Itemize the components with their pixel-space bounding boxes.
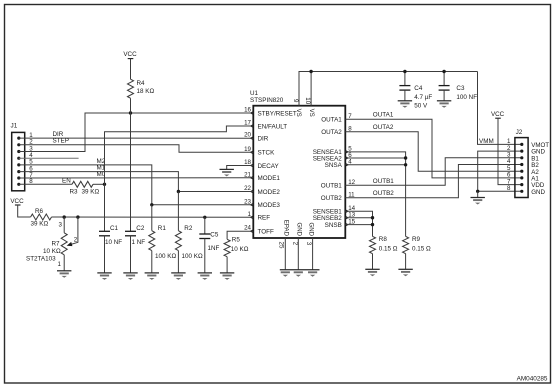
svg-text:50 V: 50 V xyxy=(414,103,428,110)
svg-text:1: 1 xyxy=(248,211,252,218)
svg-text:100 KΩ: 100 KΩ xyxy=(155,253,176,260)
svg-text:R2: R2 xyxy=(184,225,193,232)
resistor R9 xyxy=(403,236,409,253)
ground R5 xyxy=(220,272,234,274)
svg-text:VCC: VCC xyxy=(10,198,24,205)
J2 pin 7 dot xyxy=(520,183,523,186)
J2 pin 2 dot xyxy=(520,150,523,153)
svg-text:MODE1: MODE1 xyxy=(258,175,281,182)
wire OUTA2 U1.8 to J2.5 A2 xyxy=(345,132,522,172)
capacitor C4 xyxy=(404,72,406,86)
svg-text:STEP: STEP xyxy=(53,138,69,145)
node GND junction at J2.8 xyxy=(476,190,479,193)
svg-text:VCC: VCC xyxy=(491,111,505,118)
wire J1.3 to U1.16 STBY xyxy=(19,113,254,152)
wire C3 to ground xyxy=(443,90,445,101)
svg-text:R1: R1 xyxy=(158,225,167,232)
svg-text:1NF: 1NF xyxy=(208,245,220,252)
ground C1 xyxy=(97,272,111,274)
svg-text:OUTA1: OUTA1 xyxy=(373,112,394,119)
wire VS pin9 up to bus xyxy=(299,72,478,106)
U1 pin 15 SNSB xyxy=(345,223,349,227)
resistor R1 xyxy=(151,205,153,231)
ground C4 xyxy=(398,100,412,102)
U1 pin 1 REF xyxy=(250,215,254,219)
svg-text:R9: R9 xyxy=(412,236,421,243)
node REF/C5 junction xyxy=(203,216,206,219)
wire OUTB1 U1.12 to J2.3 B1 xyxy=(345,158,522,186)
U1 pin 21 MODE1 xyxy=(250,176,254,180)
svg-text:SNSB: SNSB xyxy=(325,222,342,229)
svg-text:EN: EN xyxy=(62,178,71,185)
svg-text:R5: R5 xyxy=(232,237,241,244)
svg-text:MODE2: MODE2 xyxy=(258,189,281,196)
svg-text:ST2TA103: ST2TA103 xyxy=(26,255,56,262)
resistor R8 xyxy=(370,236,376,253)
wire SNSB U1.15 xyxy=(345,224,372,226)
node MODE3/R1 junction xyxy=(150,203,153,206)
node SENSEA2 junction xyxy=(404,156,407,159)
svg-text:OUTA2: OUTA2 xyxy=(373,124,394,131)
svg-text:GND: GND xyxy=(295,222,302,236)
J1 pin 8 dot xyxy=(17,183,20,186)
svg-text:REF: REF xyxy=(258,215,271,222)
svg-text:39 KΩ: 39 KΩ xyxy=(82,189,100,196)
svg-text:STBY/RESET: STBY/RESET xyxy=(258,110,297,117)
svg-text:23: 23 xyxy=(244,198,251,205)
svg-text:VMM: VMM xyxy=(479,138,494,145)
U1 pin 19 STCK xyxy=(250,150,254,154)
svg-text:U1: U1 xyxy=(250,90,259,97)
svg-text:DIR: DIR xyxy=(258,136,269,143)
svg-text:OUTB2: OUTB2 xyxy=(373,190,394,197)
svg-text:C1: C1 xyxy=(110,225,119,232)
ground C5 xyxy=(198,272,212,274)
U1 pin 5 SENSEA1 xyxy=(345,150,349,154)
svg-text:22: 22 xyxy=(244,185,251,192)
wire VCC to R4 xyxy=(130,59,132,80)
ground pot xyxy=(57,270,71,272)
svg-text:VS: VS xyxy=(295,109,302,117)
svg-text:DECAY: DECAY xyxy=(258,163,280,170)
node pot pin3 junction xyxy=(62,215,65,218)
ground J2 xyxy=(471,197,485,199)
U1 pin 16 STBY/RESET xyxy=(250,111,254,115)
svg-text:16: 16 xyxy=(244,107,251,114)
svg-text:17: 17 xyxy=(244,120,251,127)
svg-text:C4: C4 xyxy=(414,85,423,92)
svg-text:GND: GND xyxy=(308,222,315,236)
svg-text:OUTA2: OUTA2 xyxy=(321,129,342,136)
svg-text:J2: J2 xyxy=(516,129,523,136)
wire DIR J1.1 to U1.20 xyxy=(19,137,254,139)
wire M0 J1.7 to U1.21 MODE1 xyxy=(19,177,254,179)
J1 pin 1 dot xyxy=(17,137,20,140)
svg-text:R6: R6 xyxy=(35,208,44,215)
wire C4 to ground xyxy=(404,90,406,101)
U1 pin 17 EN/FAULT xyxy=(250,124,254,128)
U1 pin 24 TOFF xyxy=(250,229,254,233)
svg-text:3: 3 xyxy=(59,222,63,229)
svg-text:OUTB1: OUTB1 xyxy=(321,183,342,190)
wire EPAD pin25 down xyxy=(284,238,286,270)
svg-text:STSPIN820: STSPIN820 xyxy=(250,97,284,104)
svg-text:MODE3: MODE3 xyxy=(258,202,281,209)
J2 pin 3 dot xyxy=(520,156,523,159)
node SNSA junction xyxy=(404,163,407,166)
svg-text:2: 2 xyxy=(292,242,299,246)
svg-text:1: 1 xyxy=(58,261,62,268)
capacitor C1 xyxy=(99,230,110,232)
svg-text:25: 25 xyxy=(277,242,284,249)
svg-text:8: 8 xyxy=(507,185,511,192)
svg-text:1 NF: 1 NF xyxy=(132,239,146,246)
svg-text:STCK: STCK xyxy=(258,150,276,157)
wire R3 to EN junction xyxy=(93,183,105,185)
wire GND pin2 down xyxy=(297,238,299,270)
wire SNSA U1.4 xyxy=(345,164,405,166)
svg-text:OUTB1: OUTB1 xyxy=(373,178,394,185)
J1 pin 7 dot xyxy=(17,176,20,179)
svg-text:OUTA1: OUTA1 xyxy=(321,117,342,124)
ground R8 xyxy=(365,268,379,270)
svg-text:10 NF: 10 NF xyxy=(105,239,122,246)
svg-text:0.15 Ω: 0.15 Ω xyxy=(412,246,431,253)
wire SENSEA1 U1.5 to R9 node xyxy=(345,152,405,237)
svg-text:21: 21 xyxy=(244,171,251,178)
svg-text:C5: C5 xyxy=(210,231,219,238)
J2 pin 1 dot xyxy=(520,143,523,146)
wire C5 to ground xyxy=(204,239,206,273)
wire EN junction up to U1.17 EN/FAULT xyxy=(105,126,254,184)
svg-text:3: 3 xyxy=(305,242,312,246)
wire R4 to STBY line and down to C2 xyxy=(130,98,132,231)
svg-text:10: 10 xyxy=(304,97,311,104)
resistor R3 xyxy=(72,181,93,187)
node SENSEB2 junction xyxy=(371,216,374,219)
node EN junction xyxy=(103,183,106,186)
wire R6 to REF line xyxy=(52,216,254,218)
svg-text:4.7 µF: 4.7 µF xyxy=(414,94,432,101)
wire SENSEA2 U1.6 xyxy=(345,157,405,159)
ground R2 xyxy=(171,272,185,274)
U1 pin 20 DIR xyxy=(250,136,254,140)
svg-text:J1: J1 xyxy=(11,123,18,130)
svg-text:18: 18 xyxy=(244,159,251,166)
potentiometer R7 ST2TA103 xyxy=(63,217,65,233)
svg-text:9: 9 xyxy=(292,99,299,103)
node C3 bus junction xyxy=(442,70,445,73)
ground C2 xyxy=(123,272,137,274)
svg-text:OUTB2: OUTB2 xyxy=(321,195,342,202)
U1 pin 6 SENSEA2 xyxy=(345,156,349,160)
wire OUTA1 U1.7 to J2.6 A1 xyxy=(345,119,522,178)
node MODE2/R2 junction xyxy=(177,190,180,193)
J2 pin 8 dot xyxy=(520,190,523,193)
connector J2 xyxy=(515,138,528,198)
node R4/STBY junction xyxy=(129,111,132,114)
op-amp U1 STSPIN820 body xyxy=(253,106,345,238)
wire stub J1.4 xyxy=(19,157,79,159)
svg-text:R4: R4 xyxy=(137,80,146,87)
resistor R2 xyxy=(177,192,179,231)
wire gnd stub xyxy=(477,191,479,197)
svg-text:C3: C3 xyxy=(456,85,465,92)
wire SENSEB1 U1.14 to R8 node xyxy=(345,211,372,236)
J1 pin 6 dot xyxy=(17,170,20,173)
connector J1 xyxy=(12,132,25,190)
ground EPAD/GND bus xyxy=(280,269,320,271)
svg-text:100 KΩ: 100 KΩ xyxy=(182,253,203,260)
wire C2 to ground xyxy=(130,236,132,273)
J1 pin 5 dot xyxy=(17,163,20,166)
U1 pin 4 SNSA xyxy=(345,163,349,167)
svg-text:AM040285: AM040285 xyxy=(517,376,548,383)
J1 pin 4 dot xyxy=(17,157,20,160)
wire J2.2 GND down to J2.8 GND xyxy=(478,151,522,191)
svg-text:R7: R7 xyxy=(52,240,61,247)
svg-text:EN/FAULT: EN/FAULT xyxy=(258,123,288,130)
J1 pin 3 dot xyxy=(17,150,20,153)
U1 pin 18 DECAY xyxy=(250,164,254,168)
svg-text:24: 24 xyxy=(244,225,251,232)
wire VCC to J2.7 VDD xyxy=(498,118,522,184)
U1 pin 22 MODE2 xyxy=(250,190,254,194)
wire SENSEB2 U1.13 xyxy=(345,217,372,219)
U1 pin 13 SENSEB2 xyxy=(345,216,349,220)
capacitor C3 xyxy=(443,72,445,86)
wire OUTB2 U1.11 to J2.4 B2 xyxy=(345,165,522,198)
capacitor C5 xyxy=(204,217,206,234)
node SNSB junction xyxy=(371,223,374,226)
svg-text:R8: R8 xyxy=(379,236,388,243)
svg-text:GND: GND xyxy=(531,189,545,196)
J2 pin 4 dot xyxy=(520,163,523,166)
ground R9 xyxy=(398,268,412,270)
wire DECAY U1.18 to ground xyxy=(227,166,254,170)
svg-text:VCC: VCC xyxy=(123,51,137,58)
svg-text:100 NF: 100 NF xyxy=(456,94,477,101)
svg-text:20: 20 xyxy=(244,132,251,139)
wire J2.8 GND xyxy=(478,190,522,192)
svg-text:VS: VS xyxy=(308,109,315,117)
resistor R5 xyxy=(224,239,230,256)
wire VCC to R6 xyxy=(18,205,31,217)
J2 pin 5 dot xyxy=(520,170,523,173)
svg-text:19: 19 xyxy=(244,146,251,153)
svg-text:10 KΩ: 10 KΩ xyxy=(231,246,249,253)
J1 pin 2 dot xyxy=(17,143,20,146)
svg-text:R3: R3 xyxy=(70,189,79,196)
U1 pin 14 SENSEB1 xyxy=(345,209,349,213)
wire VS pin10 up to bus xyxy=(310,72,312,106)
svg-text:C2: C2 xyxy=(136,225,145,232)
node pot wiper junction xyxy=(76,215,79,218)
U1 pin 23 MODE3 xyxy=(250,203,254,207)
J2 pin 6 dot xyxy=(520,176,523,179)
resistor R4 xyxy=(128,79,134,98)
wire TOFF U1.24 to R5 xyxy=(227,231,253,239)
wire VMM bus down to J2.1 xyxy=(478,72,522,145)
wire EN J1.8 to R3 xyxy=(19,183,72,185)
svg-text:EPAD: EPAD xyxy=(283,220,290,237)
node VS pin10 bus junction xyxy=(309,70,312,73)
ground C3 xyxy=(437,100,451,102)
svg-text:SNSA: SNSA xyxy=(325,162,343,169)
wire GND pin3 down xyxy=(312,238,314,270)
wire C1 to ground xyxy=(104,236,106,273)
wire STEP J1.2 to U1.19 xyxy=(19,145,254,153)
wire pot pin1 to ground xyxy=(63,255,65,271)
svg-text:TOFF: TOFF xyxy=(258,229,274,236)
node C4 bus junction xyxy=(403,70,406,73)
wire EN junction down to C1 xyxy=(104,184,106,231)
svg-text:10 KΩ: 10 KΩ xyxy=(43,248,61,255)
capacitor C2 xyxy=(125,230,136,232)
svg-text:0.15 Ω: 0.15 Ω xyxy=(379,246,398,253)
resistor R6 xyxy=(31,214,52,220)
wire M2 J1.5 to U1.23 MODE3 xyxy=(19,165,254,205)
svg-text:39 KΩ: 39 KΩ xyxy=(31,221,49,228)
wire M1 J1.6 to U1.22 MODE2 xyxy=(19,172,254,192)
svg-text:2: 2 xyxy=(74,236,78,243)
ground R1 xyxy=(145,272,159,274)
svg-text:18 KΩ: 18 KΩ xyxy=(137,88,155,95)
ground DECAY xyxy=(220,168,234,170)
